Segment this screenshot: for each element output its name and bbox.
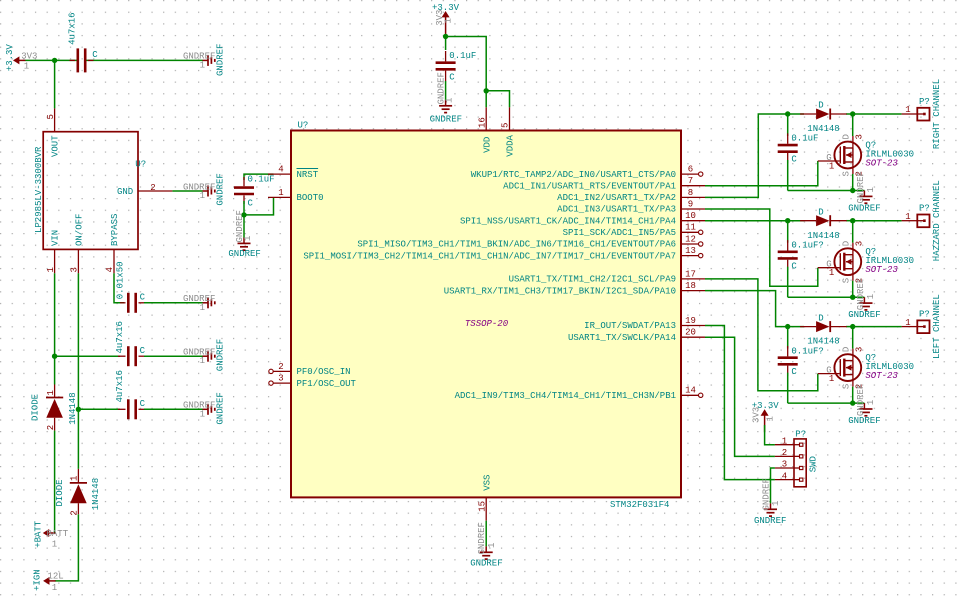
power +3.3V top-center — [432, 3, 460, 34]
svg-text:1N4148: 1N4148 — [68, 392, 78, 424]
diode DIODE 1N4148 (ignition) — [55, 469, 101, 516]
svg-text:SPI1_SCK/ADC1_IN5/PA5: SPI1_SCK/ADC1_IN5/PA5 — [563, 228, 676, 238]
capacitor C2 4u7x16 — [115, 321, 150, 366]
wire junction to cap — [787, 327, 789, 349]
svg-text:1: 1 — [52, 583, 57, 593]
ground GNDREF at VSS — [470, 522, 502, 569]
junction diode anode — [785, 324, 790, 329]
wire 3V3 to VDD/VDDA — [446, 37, 487, 108]
pin 4 NRST — [268, 165, 319, 180]
svg-text:USART1_TX/TIM1_CH2/I2C1_SCL/PA: USART1_TX/TIM1_CH2/I2C1_SCL/PA9 — [509, 275, 676, 285]
svg-text:1: 1 — [905, 318, 910, 328]
pin 16 VDD — [477, 107, 492, 153]
svg-text:1: 1 — [444, 98, 454, 103]
svg-text:GNDREF: GNDREF — [228, 249, 260, 259]
pin 3 PF1/OSC_OUT — [269, 374, 357, 389]
svg-text:3: 3 — [854, 241, 864, 246]
wire +3.3V to C1 — [25, 59, 77, 61]
svg-text:2: 2 — [278, 362, 283, 372]
wire to connector — [853, 113, 902, 115]
svg-text:4: 4 — [782, 471, 787, 481]
svg-text:1N4148: 1N4148 — [807, 124, 839, 134]
svg-text:C: C — [140, 293, 146, 303]
power +3.3V top-left — [5, 44, 38, 72]
svg-text:P?: P? — [919, 204, 930, 214]
ground GNDREF top-left — [183, 44, 225, 76]
svg-text:GNDREF: GNDREF — [761, 478, 771, 510]
wire C3 to GNDREF — [144, 408, 203, 410]
svg-text:GNDREF: GNDREF — [430, 115, 462, 125]
svg-text:20: 20 — [685, 328, 696, 338]
wire diode to +BATT — [54, 431, 56, 533]
svg-text:1: 1 — [905, 212, 910, 222]
svg-text:STM32F031F4: STM32F031F4 — [610, 500, 669, 510]
svg-text:+BATT: +BATT — [34, 520, 44, 548]
wire gnd rail — [788, 296, 865, 298]
svg-text:GNDREF: GNDREF — [848, 204, 880, 214]
svg-text:ADC1_IN1/USART1_RTS/EVENTOUT/P: ADC1_IN1/USART1_RTS/EVENTOUT/PA1 — [503, 181, 676, 191]
svg-text:1: 1 — [52, 539, 57, 549]
transistor Q? IRLML0030 — [818, 241, 914, 283]
wire NRST to C4 — [244, 174, 274, 180]
wire cap to gnd rail — [787, 160, 789, 191]
ground GNDREF top-center — [430, 72, 462, 125]
svg-text:C: C — [791, 155, 797, 165]
svg-text:D: D — [842, 347, 852, 352]
connector P? SWD — [775, 429, 819, 487]
svg-text:C: C — [140, 346, 146, 356]
junction VIN rail — [52, 354, 57, 359]
svg-text:4: 4 — [278, 165, 283, 175]
wire pin7 to Q1 gate — [705, 161, 818, 186]
svg-text:GNDREF: GNDREF — [477, 522, 487, 554]
svg-text:USART1_TX/SWCLK/PA14: USART1_TX/SWCLK/PA14 — [568, 333, 676, 343]
svg-text:D: D — [818, 207, 823, 217]
pin 15 VSS — [477, 475, 492, 521]
pin 13 PA7 — [303, 246, 703, 261]
svg-text:4u7x16: 4u7x16 — [115, 370, 125, 402]
pin 20 PA14 — [568, 328, 705, 343]
svg-text:3: 3 — [278, 374, 283, 384]
junction diode anode — [785, 111, 790, 116]
svg-text:BOOT0: BOOT0 — [297, 193, 324, 203]
svg-text:1: 1 — [24, 61, 29, 71]
svg-text:1: 1 — [866, 400, 876, 405]
svg-text:SOT-23: SOT-23 — [865, 371, 898, 381]
junction diode cathode — [850, 111, 855, 116]
svg-text:SOT-23: SOT-23 — [865, 265, 898, 275]
svg-text:SPI1_MISO/TIM3_CH1/TIM1_BKIN/A: SPI1_MISO/TIM3_CH1/TIM1_BKIN/ADC_IN6/TIM… — [357, 240, 676, 250]
svg-text:5: 5 — [501, 123, 511, 128]
svg-text:VOUT: VOUT — [51, 135, 61, 157]
regulator U? LP2985LV-3300BVR — [34, 108, 172, 273]
junction BOOT0/GND — [241, 212, 246, 217]
connector P? HAZZARD CHANNEL — [902, 204, 930, 228]
svg-text:12: 12 — [685, 234, 696, 244]
svg-text:1: 1 — [200, 191, 205, 201]
pin 18 PA10 — [444, 281, 705, 296]
svg-text:SPI1_MOSI/TIM3_CH2/TIM14_CH1/T: SPI1_MOSI/TIM3_CH2/TIM14_CH1/TIM1_CH1N/A… — [303, 251, 676, 261]
junction diode cathode — [850, 218, 855, 223]
svg-text:PF1/OSC_OUT: PF1/OSC_OUT — [297, 379, 357, 389]
pin 19 PA13 — [584, 316, 705, 331]
diode D 1N4148 (right channel) — [800, 101, 847, 134]
ground GNDREF at regulator GND — [183, 173, 225, 205]
svg-text:4: 4 — [105, 267, 115, 272]
svg-text:1: 1 — [782, 436, 787, 446]
svg-text:DIODE: DIODE — [55, 479, 65, 506]
svg-text:D: D — [818, 313, 823, 323]
svg-text:1: 1 — [487, 543, 497, 548]
wire junction to BOOT0 — [244, 197, 274, 215]
wire C2 to GNDREF — [144, 355, 203, 357]
transistor Q? IRLML0030 — [818, 347, 914, 389]
wire GND pin to GNDREF — [172, 190, 202, 192]
svg-text:1: 1 — [70, 476, 80, 481]
svg-text:2: 2 — [150, 183, 155, 193]
junction VDD — [484, 88, 489, 93]
junction source/gnd — [850, 400, 855, 405]
svg-text:USART1_RX/TIM1_CH3/TIM17_BKIN/: USART1_RX/TIM1_CH3/TIM17_BKIN/I2C1_SDA/P… — [444, 286, 676, 296]
svg-text:RIGHT CHANNEL: RIGHT CHANNEL — [932, 79, 942, 149]
svg-text:C: C — [248, 199, 254, 209]
wire to connector — [853, 220, 902, 222]
svg-text:1: 1 — [200, 303, 205, 313]
svg-text:GNDREF: GNDREF — [215, 44, 225, 76]
wire ON/OFF rail to C3 — [78, 408, 120, 410]
wire drain — [852, 114, 854, 136]
svg-text:S: S — [842, 171, 852, 176]
svg-text:GNDREF: GNDREF — [470, 559, 502, 569]
svg-text:10: 10 — [685, 211, 696, 221]
ground GNDREF at bypass — [203, 302, 209, 304]
wire source — [852, 387, 854, 404]
svg-text:1: 1 — [829, 374, 834, 384]
svg-text:GNDREF: GNDREF — [856, 278, 866, 310]
wire VSS to GNDREF — [485, 521, 487, 547]
pin 11 PA5 — [563, 223, 703, 238]
pin 10 PA4 — [460, 211, 705, 226]
wire junction to cap — [787, 114, 789, 136]
svg-text:D: D — [818, 101, 823, 111]
svg-text:17: 17 — [685, 269, 696, 279]
svg-text:0.1uF: 0.1uF — [791, 134, 818, 144]
svg-text:1: 1 — [200, 409, 205, 419]
svg-text:C: C — [140, 399, 146, 409]
wire pin19 to SWD pin4 — [705, 326, 775, 480]
svg-text:DIODE: DIODE — [31, 394, 41, 421]
svg-text:0.1uF: 0.1uF — [248, 174, 275, 184]
wire pin17 to Q3 gate — [705, 279, 818, 391]
svg-text:GNDREF: GNDREF — [856, 171, 866, 203]
svg-text:1: 1 — [829, 162, 834, 172]
svg-text:1: 1 — [200, 356, 205, 366]
svg-text:U?: U? — [298, 121, 309, 131]
junction source/gnd — [850, 295, 855, 300]
wire VIN rail to C2 — [55, 355, 120, 357]
wire source — [852, 281, 854, 298]
svg-text:SPI1_NSS/USART1_CK/ADC_IN4/TIM: SPI1_NSS/USART1_CK/ADC_IN4/TIM14_CH1/PA4 — [460, 216, 676, 226]
svg-text:1: 1 — [46, 390, 56, 395]
svg-text:ADC1_IN3/USART1_TX/PA3: ADC1_IN3/USART1_TX/PA3 — [557, 205, 676, 215]
svg-text:GNDREF: GNDREF — [215, 339, 225, 371]
pin 2 PF0/OSC_IN — [269, 362, 351, 377]
capacitor C 0.1uF (right channel) — [778, 133, 819, 164]
svg-text:1N4148: 1N4148 — [807, 337, 839, 347]
svg-text:GNDREF: GNDREF — [848, 310, 880, 320]
pin 9 PA3 — [557, 199, 705, 214]
svg-text:13: 13 — [685, 246, 696, 256]
svg-text:VDD: VDD — [482, 137, 492, 153]
wire pin10 to channel2 — [705, 220, 788, 222]
svg-text:PF0/OSC_IN: PF0/OSC_IN — [297, 367, 351, 377]
svg-text:HAZZARD CHANNEL: HAZZARD CHANNEL — [932, 180, 942, 261]
wire C4 to junction/GNDREF — [243, 201, 245, 238]
svg-text:S: S — [842, 384, 852, 389]
transistor Q? IRLML0030 — [818, 134, 914, 176]
wire channel feed rail — [788, 326, 804, 328]
wire source — [852, 174, 854, 191]
svg-text:VDDA: VDDA — [506, 134, 516, 156]
svg-text:D: D — [842, 241, 852, 246]
pin 17 PA9 — [509, 269, 705, 284]
svg-text:SOT-23: SOT-23 — [865, 159, 898, 169]
svg-text:8: 8 — [688, 188, 693, 198]
wire cap to gnd rail — [787, 373, 789, 404]
svg-text:2: 2 — [46, 425, 56, 430]
wire C bypass to GNDREF — [144, 302, 203, 304]
svg-text:LP2985LV-3300BVR: LP2985LV-3300BVR — [34, 146, 44, 233]
svg-text:3: 3 — [70, 267, 80, 272]
diode D 1N4148 (hazzard channel) — [800, 207, 847, 240]
capacitor C 0.1uF? (left channel) — [778, 346, 824, 377]
wire BYPASS to C bypass — [114, 273, 124, 303]
connector P? RIGHT CHANNEL — [902, 97, 930, 121]
svg-text:C: C — [449, 73, 455, 83]
wire pin9 to Q2 gate — [705, 209, 818, 286]
svg-text:1N4148: 1N4148 — [91, 478, 101, 510]
ground GNDREF (hazzard channel) — [848, 278, 880, 320]
wire ON/OFF down — [77, 273, 79, 469]
wire channel feed rail — [788, 220, 804, 222]
wire C1 to GNDREF — [86, 59, 203, 61]
wire SWD pin3 to GNDREF — [771, 468, 775, 503]
power +BATT — [34, 520, 69, 549]
svg-text:U?: U? — [135, 159, 146, 169]
wire junction to cap — [787, 221, 789, 243]
wire drain — [852, 221, 854, 243]
wire channel feed rail — [788, 113, 804, 115]
capacitor C5 0.1uF — [436, 37, 477, 83]
junction 3V3/C5 — [443, 34, 448, 39]
svg-text:14: 14 — [685, 386, 696, 396]
svg-text:1: 1 — [866, 294, 876, 299]
wire C5 to GNDREF — [445, 81, 447, 100]
svg-text:1: 1 — [46, 267, 56, 272]
wire drain — [852, 327, 854, 349]
wire diode to +IGN — [55, 514, 79, 581]
svg-text:16: 16 — [477, 117, 487, 128]
svg-text:GNDREF: GNDREF — [215, 392, 225, 424]
wire pin8 to channel1 — [705, 114, 788, 197]
svg-text:0.01x50: 0.01x50 — [115, 261, 125, 299]
connector P? LEFT CHANNEL — [902, 309, 930, 333]
svg-text:+IGN: +IGN — [33, 569, 43, 591]
svg-text:GNDREF: GNDREF — [215, 173, 225, 205]
svg-text:1: 1 — [829, 268, 834, 278]
svg-text:ADC1_IN2/USART1_TX/PA2: ADC1_IN2/USART1_TX/PA2 — [557, 193, 676, 203]
svg-text:4u7x16: 4u7x16 — [68, 12, 78, 44]
wire to VDDA — [486, 91, 509, 107]
svg-text:15: 15 — [477, 501, 487, 512]
wire gnd rail — [788, 190, 865, 192]
svg-text:GNDREF: GNDREF — [754, 516, 786, 526]
svg-text:1: 1 — [444, 18, 454, 23]
ground GNDREF at SWD — [754, 478, 786, 526]
svg-text:C: C — [92, 50, 98, 60]
wire 3V3 to SWD pin1 — [765, 425, 775, 445]
svg-text:19: 19 — [685, 316, 696, 326]
svg-text:GND: GND — [117, 187, 133, 197]
svg-text:VIN: VIN — [51, 230, 61, 246]
svg-text:0.1uF?: 0.1uF? — [791, 346, 823, 356]
junction diode anode — [785, 218, 790, 223]
svg-text:3: 3 — [854, 347, 864, 352]
svg-text:P?: P? — [919, 97, 930, 107]
capacitor C1 4u7x16 — [68, 12, 99, 72]
svg-text:6: 6 — [688, 165, 693, 175]
ground GNDREF at C3 — [183, 392, 225, 424]
ground GNDREF (left channel) — [848, 384, 880, 426]
svg-text:0.1uF?: 0.1uF? — [791, 240, 823, 250]
ground GNDREF at C2 — [183, 339, 225, 371]
diode D 1N4148 (left channel) — [800, 313, 847, 346]
svg-text:WKUP1/RTC_TAMP2/ADC_IN0/USART1: WKUP1/RTC_TAMP2/ADC_IN0/USART1_CTS/PA0 — [471, 170, 676, 180]
svg-text:D: D — [842, 134, 852, 139]
svg-text:LEFT CHANNEL: LEFT CHANNEL — [932, 294, 942, 359]
svg-text:S: S — [842, 278, 852, 283]
junction at 3V3 rail — [52, 58, 57, 63]
svg-text:BATT: BATT — [47, 529, 69, 539]
wire 3V3 rail to VOUT — [54, 60, 56, 108]
svg-text:C: C — [791, 261, 797, 271]
svg-text:1: 1 — [765, 416, 775, 421]
ground GNDREF (right channel) — [848, 171, 880, 213]
pin 8 PA2 — [557, 188, 705, 203]
junction ON/OFF rail — [76, 407, 81, 412]
wire pin20 to SWD pin2 — [705, 337, 775, 456]
svg-text:1: 1 — [243, 236, 253, 241]
svg-text:SWD: SWD — [809, 456, 819, 472]
svg-text:GNDREF: GNDREF — [856, 384, 866, 416]
svg-text:12L: 12L — [48, 571, 64, 581]
capacitor C 0.1uF? (hazzard channel) — [778, 240, 824, 271]
pin 5 VDDA — [501, 107, 516, 157]
svg-text:+3.3V: +3.3V — [5, 44, 15, 72]
svg-text:1: 1 — [771, 501, 781, 506]
pin 7 PA1 — [503, 176, 705, 191]
svg-text:1: 1 — [200, 60, 205, 70]
junction source/gnd — [850, 188, 855, 193]
pin 14 PB1 — [455, 386, 703, 401]
wire cap to gnd rail — [787, 267, 789, 298]
svg-text:4u7x16: 4u7x16 — [115, 321, 125, 353]
svg-text:C: C — [791, 367, 797, 377]
svg-text:9: 9 — [688, 199, 693, 209]
svg-text:VSS: VSS — [482, 475, 492, 491]
pin 6 PA0 — [471, 165, 703, 180]
svg-text:3: 3 — [854, 134, 864, 139]
power +IGN — [33, 569, 64, 593]
svg-text:5: 5 — [46, 114, 56, 119]
svg-text:GNDREF: GNDREF — [848, 416, 880, 426]
wire to connector — [853, 326, 902, 328]
pin 1 BOOT0 — [268, 188, 324, 203]
svg-text:2: 2 — [782, 448, 787, 458]
capacitor C 0.01x50 (bypass) — [115, 261, 150, 312]
wire pin18 to channel3 — [705, 291, 788, 327]
svg-text:ON/OFF: ON/OFF — [75, 214, 85, 246]
svg-text:11: 11 — [685, 223, 696, 233]
svg-text:1: 1 — [278, 188, 283, 198]
svg-text:1N4148: 1N4148 — [807, 231, 839, 241]
svg-text:1: 1 — [905, 105, 910, 115]
pin 12 PA6 — [357, 234, 703, 249]
svg-text:IR_OUT/SWDAT/PA13: IR_OUT/SWDAT/PA13 — [584, 321, 676, 331]
svg-text:0.1uF: 0.1uF — [449, 51, 476, 61]
svg-text:ADC1_IN9/TIM3_CH4/TIM14_CH1/TI: ADC1_IN9/TIM3_CH4/TIM14_CH1/TIM1_CH3N/PB… — [455, 391, 676, 401]
svg-text:TSSOP-20: TSSOP-20 — [465, 319, 509, 329]
diode DIODE 1N4148 (battery) — [31, 385, 78, 431]
svg-text:3: 3 — [782, 460, 787, 470]
svg-text:1: 1 — [866, 187, 876, 192]
wire gnd rail — [788, 402, 865, 404]
svg-text:18: 18 — [685, 281, 696, 291]
svg-text:3V3: 3V3 — [751, 407, 761, 423]
svg-text:P?: P? — [919, 309, 930, 319]
capacitor C4 0.1uF — [234, 174, 275, 208]
power +3.3V at SWD — [751, 401, 779, 432]
wire VIN down — [54, 273, 56, 384]
svg-text:P?: P? — [795, 429, 806, 439]
svg-text:BYPASS: BYPASS — [110, 214, 120, 246]
svg-text:7: 7 — [688, 176, 693, 186]
IC U? STM32F031F4 — [291, 121, 681, 510]
ground GNDREF at C4 — [228, 210, 260, 259]
svg-text:NRST: NRST — [297, 170, 319, 180]
junction diode cathode — [850, 324, 855, 329]
capacitor C3 4u7x16 — [115, 370, 150, 419]
